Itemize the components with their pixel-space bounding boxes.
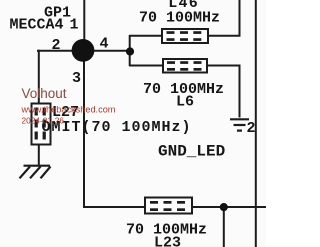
svg-text:2: 2	[247, 120, 256, 137]
svg-text:MECCA4: MECCA4	[10, 16, 64, 33]
svg-text:70 100MHz: 70 100MHz	[139, 10, 220, 27]
svg-text:1: 1	[70, 16, 79, 33]
svg-text:2024-01-26: 2024-01-26	[22, 116, 65, 126]
svg-text:2: 2	[52, 37, 61, 54]
svg-text:L23: L23	[154, 235, 181, 247]
svg-text:L6: L6	[176, 94, 194, 111]
svg-text:OMIT(70 100MHz): OMIT(70 100MHz)	[42, 119, 192, 136]
svg-text:4: 4	[100, 36, 109, 53]
svg-text:3: 3	[72, 70, 81, 87]
svg-text:Volhout: Volhout	[22, 86, 67, 101]
svg-text:GND_LED: GND_LED	[158, 143, 225, 161]
svg-text:www.thebackshed.com: www.thebackshed.com	[21, 105, 116, 115]
